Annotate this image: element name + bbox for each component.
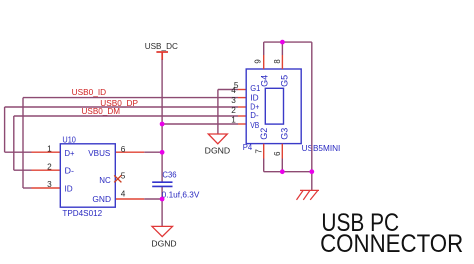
pin 5 stub of P4 — [238, 89, 246, 91]
wire USB0_DP horizontal y=107 — [5, 106, 238, 108]
svg-text:USB_DC: USB_DC — [145, 41, 178, 51]
wire to U10 pin1 y=152.2 — [5, 151, 32, 153]
wire left vertical x=13.8 (USB0_DM wrap) — [13, 116, 15, 170]
svg-text:D+: D+ — [65, 149, 75, 158]
wire VB row y=124 from junction to connector — [162, 123, 238, 125]
svg-text:VBUS: VBUS — [88, 149, 110, 158]
wire to U10 pin2 y=170.2 — [14, 169, 32, 171]
pin 9 stub of P4 — [263, 55, 265, 69]
svg-text:USB5MINI: USB5MINI — [302, 143, 341, 153]
ground DGND under C36 — [152, 226, 173, 236]
svg-text:G3: G3 — [279, 128, 289, 140]
pin 2 stub of P4 — [238, 115, 246, 117]
wire top bus y=42.1 — [264, 41, 312, 43]
wire USB_DC vertical x=162 from power stem to VB junction — [161, 60, 163, 125]
svg-text:USB0_ID: USB0_ID — [72, 87, 107, 97]
wire G1 pin5 row y=89.5 — [218, 89, 238, 91]
junction at bottom bus right — [309, 169, 314, 174]
op-amp U10 body — [60, 144, 115, 207]
wire left vertical x=4.6 (USB0_DP wrap) — [4, 107, 6, 152]
junction at VBUS row — [160, 150, 165, 155]
pin 6 stub of U10 — [115, 151, 144, 153]
ground DGND near connector — [208, 134, 227, 144]
wire pin7 vertical to bottom bus — [263, 159, 265, 172]
wire USB_DC vertical VB junction to VBUS junction — [161, 124, 163, 152]
pin 2 stub of U10 — [32, 169, 61, 171]
junction at top bus — [280, 40, 285, 45]
wire bottom bus y=171.7 — [264, 171, 312, 173]
svg-text:TPD4S012: TPD4S012 — [62, 209, 102, 218]
no-connect X on pin 5 — [114, 175, 121, 182]
svg-text:2: 2 — [231, 106, 236, 115]
svg-text:6: 6 — [121, 145, 126, 154]
wire vertical C36 bottom plate to GND junction — [161, 187, 163, 199]
svg-text:P4: P4 — [243, 143, 253, 152]
wire USB0_DM horizontal y=116 — [14, 115, 238, 117]
wire vertical VBUS junction to C36 top plate — [161, 152, 163, 181]
svg-text:VB: VB — [250, 120, 259, 130]
svg-text:G4: G4 — [259, 75, 269, 87]
pin 4 stub of P4 — [238, 97, 246, 99]
junction at GND row — [160, 197, 165, 202]
pin 3 stub of P4 — [238, 106, 246, 108]
svg-text:6: 6 — [273, 152, 282, 156]
svg-text:9: 9 — [253, 59, 262, 63]
pin 1 stub of U10 — [32, 151, 61, 153]
pin 1 stub of P4 — [238, 123, 246, 125]
junction at bottom bus pin6 — [280, 169, 285, 174]
pin 7 stub of P4 — [263, 144, 265, 159]
pin 8 stub of P4 — [281, 55, 283, 69]
svg-text:DGND: DGND — [151, 238, 176, 248]
svg-text:G5: G5 — [279, 75, 289, 87]
svg-text:3: 3 — [231, 96, 236, 105]
wire left vertical x=23 (USB0_ID wrap) — [22, 98, 24, 188]
wire vertical GND junction to DGND symbol — [161, 199, 163, 226]
pin 3 stub of U10 — [32, 187, 61, 189]
svg-text:D-: D- — [65, 167, 75, 176]
svg-text:8: 8 — [273, 59, 282, 63]
wire pin6 stub to junction — [144, 151, 162, 153]
svg-text:4: 4 — [231, 86, 236, 95]
svg-text:1: 1 — [231, 116, 236, 125]
junction at VB row — [160, 122, 165, 127]
svg-text:G2: G2 — [259, 128, 269, 140]
wire pin8 vertical to top bus — [281, 42, 283, 55]
svg-text:GND: GND — [92, 195, 111, 204]
capacitor C36 — [152, 182, 172, 186]
chassis ground symbol — [297, 190, 320, 200]
pin 6 stub of P4 — [281, 144, 283, 159]
svg-text:USB0_DM: USB0_DM — [82, 106, 121, 116]
wire to U10 pin3 y=188 — [23, 187, 32, 189]
svg-text:3: 3 — [47, 180, 52, 189]
svg-text:U10: U10 — [62, 135, 76, 144]
svg-text:7: 7 — [254, 149, 263, 153]
wire USB0_ID horizontal y=97.6 — [23, 97, 238, 99]
svg-text:DGND: DGND — [205, 146, 231, 156]
pin 4 stub of U10 — [115, 198, 144, 200]
wire pin9 vertical to top bus — [263, 42, 265, 55]
svg-text:C36: C36 — [162, 171, 177, 180]
svg-text:4: 4 — [121, 189, 126, 198]
svg-text:NC: NC — [99, 176, 111, 185]
svg-text:2: 2 — [47, 162, 52, 171]
wire pin6 vertical to bottom bus — [281, 159, 283, 172]
connector P4 body — [246, 69, 301, 144]
wire right vertical x=311.4 — [311, 42, 313, 172]
connector inner shell rectangle — [265, 88, 283, 124]
power symbol USB_DC — [156, 52, 168, 60]
wire chassis ground stub x=311 — [311, 172, 313, 191]
svg-text:1: 1 — [47, 144, 52, 153]
svg-text:D-: D- — [250, 110, 258, 120]
svg-text:ID: ID — [65, 185, 73, 194]
svg-text:CONNECTOR: CONNECTOR — [320, 230, 463, 258]
wire pin4 stub to junction — [144, 198, 162, 200]
wire vertical x=217.9 to DGND — [217, 90, 219, 135]
svg-text:0.1uf,6.3V: 0.1uf,6.3V — [162, 191, 200, 200]
